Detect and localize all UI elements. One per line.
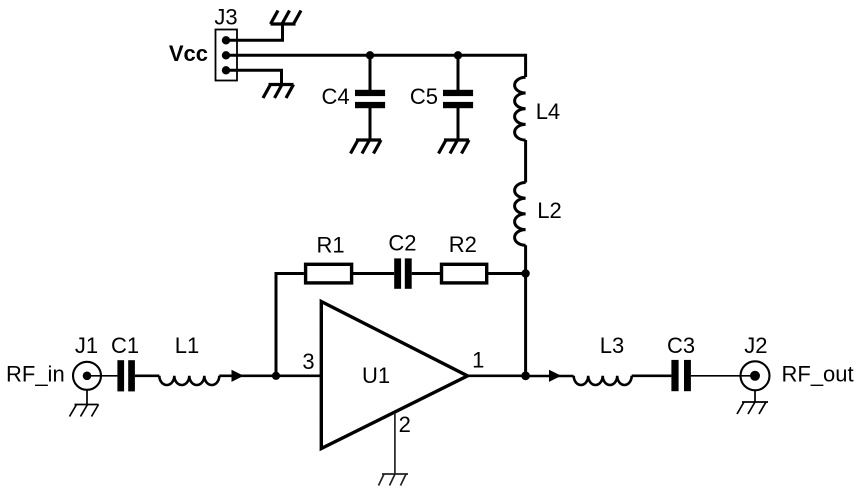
wire C4 top: [369, 55, 372, 90]
connector J2: [741, 333, 770, 390]
wire R1 to C2: [352, 272, 395, 275]
svg-text:J1: J1: [75, 333, 98, 358]
wire J2 ground stem: [754, 390, 756, 402]
svg-text:L1: L1: [175, 333, 199, 358]
resistor R1: [306, 233, 352, 283]
wire op-amp pin 2 stem: [394, 413, 396, 474]
svg-text:J3: J3: [214, 5, 237, 30]
svg-text:R2: R2: [449, 232, 477, 257]
ground (below C4): [351, 140, 382, 154]
wire Vcc rail J3 pin2 to corner: [226, 54, 526, 57]
svg-text:C1: C1: [111, 333, 139, 358]
wire J1 pigtail to C1: [87, 375, 117, 377]
wire J3 pin3 to lower ground: [226, 70, 282, 84]
wire J1 ground stem: [86, 390, 88, 405]
wire node to L3: [526, 375, 574, 378]
svg-text:C5: C5: [410, 84, 438, 109]
svg-text:2: 2: [399, 412, 411, 437]
wire L3 to C3: [632, 374, 672, 377]
wire C2 to R2: [412, 272, 442, 275]
wire J3 pin1 to top ground: [226, 25, 283, 40]
ground (below J2): [737, 402, 768, 414]
wire C4 bottom: [369, 107, 372, 140]
svg-text:R1: R1: [316, 233, 344, 258]
inductor L2: [515, 183, 562, 246]
svg-text:RF_in: RF_in: [6, 361, 65, 386]
wire R2 to L2 node: [487, 272, 526, 275]
svg-text:3: 3: [302, 349, 314, 374]
wire C5 bottom: [457, 107, 460, 140]
capacitor C1: [111, 333, 139, 391]
svg-text:C2: C2: [388, 231, 416, 256]
op-amp U1: [321, 302, 467, 449]
wire rail corner down to L4: [524, 54, 527, 77]
wire C3 to J2 pigtail: [691, 375, 755, 377]
connector J1: [73, 333, 101, 390]
wire node to op-amp pin 3: [276, 374, 321, 377]
svg-text:J2: J2: [744, 333, 767, 358]
arrow (output): [549, 370, 561, 382]
capacitor C3: [667, 333, 695, 391]
inductor L4: [515, 77, 561, 140]
ground (below J3 pin3): [263, 85, 294, 99]
wire op-amp output to node: [467, 374, 526, 377]
node: output (pin 1): [521, 371, 530, 380]
svg-text:RF_out: RF_out: [782, 361, 854, 386]
node: Vcc rail / C5 junction: [454, 51, 462, 59]
svg-text:Vcc: Vcc: [169, 41, 208, 66]
connector J3: [214, 5, 237, 81]
capacitor C5: [410, 84, 473, 109]
inductor L1: [159, 333, 219, 385]
capacitor C2: [388, 231, 416, 289]
svg-text:L2: L2: [537, 198, 561, 223]
svg-text:L3: L3: [600, 333, 624, 358]
resistor R2: [442, 232, 487, 283]
node: input (pin 3): [272, 372, 280, 380]
svg-text:C3: C3: [667, 333, 695, 358]
wire C1 to L1: [135, 374, 159, 377]
ground (below J1): [70, 405, 99, 417]
wire L1 to input node: [219, 374, 276, 377]
svg-text:U1: U1: [362, 363, 390, 388]
ground (top, flipped): [271, 11, 302, 25]
arrow (input): [232, 370, 244, 382]
svg-text:C4: C4: [321, 84, 349, 109]
wire feedback left vertical: [276, 274, 304, 376]
node: feedback / L2 junction: [521, 269, 529, 277]
wire L4 to L2: [524, 140, 527, 183]
wire L2 down to output node: [524, 245, 527, 375]
capacitor C4: [321, 84, 385, 109]
svg-text:1: 1: [472, 347, 484, 372]
wire C5 top: [457, 55, 460, 90]
node: Vcc rail / C4 junction: [366, 51, 374, 59]
svg-text:L4: L4: [536, 99, 560, 124]
ground (below C5): [439, 140, 470, 154]
inductor L3: [574, 333, 632, 385]
ground (below U1 pin 2): [379, 474, 409, 486]
